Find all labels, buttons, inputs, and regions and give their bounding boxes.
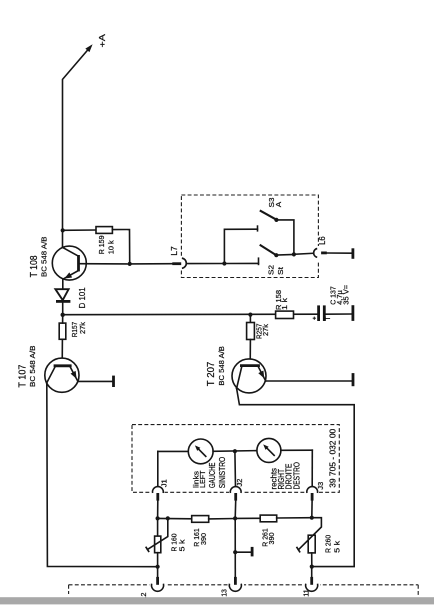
svg-text:27k: 27k (261, 324, 270, 336)
svg-text:J2: J2 (235, 479, 244, 487)
svg-text:35 V=: 35 V= (341, 284, 350, 305)
svg-text:390: 390 (199, 533, 208, 545)
svg-text:5 k: 5 k (177, 539, 186, 551)
svg-text:J3: J3 (316, 482, 325, 490)
svg-text:BC 548 A/B: BC 548 A/B (28, 346, 37, 388)
svg-text:GAUCHE: GAUCHE (208, 463, 217, 489)
svg-text:LEFT: LEFT (198, 470, 207, 488)
svg-text:T: T (325, 316, 332, 321)
svg-text:DESTRO: DESTRO (293, 462, 302, 490)
svg-text:5 k: 5 k (332, 541, 341, 553)
svg-text:St: St (276, 266, 285, 275)
svg-text:T 207: T 207 (206, 361, 217, 386)
svg-text:27k: 27k (78, 322, 87, 334)
svg-text:390: 390 (267, 533, 276, 545)
svg-text:J1: J1 (159, 479, 168, 487)
svg-text:+A: +A (97, 34, 107, 48)
svg-text:L6: L6 (318, 236, 327, 245)
svg-text:SINISTRO: SINISTRO (218, 457, 227, 489)
svg-text:13: 13 (221, 589, 228, 597)
svg-text:39 705 - 032 00: 39 705 - 032 00 (329, 428, 338, 488)
svg-text:R 159: R 159 (97, 236, 106, 255)
svg-text:BC 548 A/B: BC 548 A/B (217, 346, 226, 386)
svg-text:1 k: 1 k (280, 298, 289, 310)
svg-text:L7: L7 (170, 246, 179, 256)
svg-text:10 k: 10 k (107, 240, 116, 254)
svg-text:R 260: R 260 (324, 535, 333, 553)
svg-text:D 101: D 101 (77, 287, 87, 308)
svg-text:S2: S2 (267, 265, 276, 275)
svg-text:T 108: T 108 (29, 255, 40, 277)
svg-text:BC 548 A/B: BC 548 A/B (39, 237, 48, 278)
